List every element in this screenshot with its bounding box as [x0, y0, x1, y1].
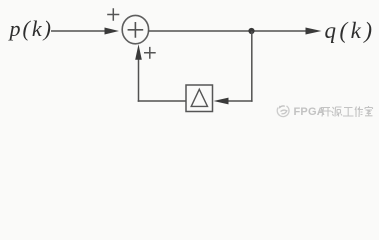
wire summer to output: [148, 30, 306, 32]
wire input to summer: [51, 30, 106, 32]
wire up to summer: [138, 58, 140, 102]
node junction dot: [248, 28, 254, 34]
wire node down: [251, 31, 253, 102]
arrowhead up into summer: [135, 44, 142, 60]
delay block D1: [186, 85, 213, 112]
plus sign lower input polarity: [144, 47, 156, 59]
plus sign inside summer: [128, 22, 144, 38]
watermark text shi (room): [365, 106, 373, 116]
wire delay output left: [138, 100, 186, 102]
arrowhead into delay: [214, 98, 229, 105]
svg-text:q(k): q(k): [325, 18, 376, 43]
arrowhead into summer: [105, 28, 120, 35]
delay triangle symbol: [191, 89, 207, 106]
watermark logo: [277, 106, 289, 117]
arrowhead to output label: [306, 28, 322, 35]
watermark text kai (open): [320, 108, 331, 117]
plus sign upper input polarity: [107, 8, 119, 21]
wire down to delay input: [228, 100, 253, 102]
watermark text yuan (source): [332, 107, 343, 117]
summing junction U1: [122, 15, 148, 43]
svg-text:p(k): p(k): [8, 16, 53, 41]
watermark text zuo (do): [355, 107, 363, 118]
svg-text:FPGA: FPGA: [294, 106, 325, 118]
watermark text gong (work): [343, 108, 354, 117]
